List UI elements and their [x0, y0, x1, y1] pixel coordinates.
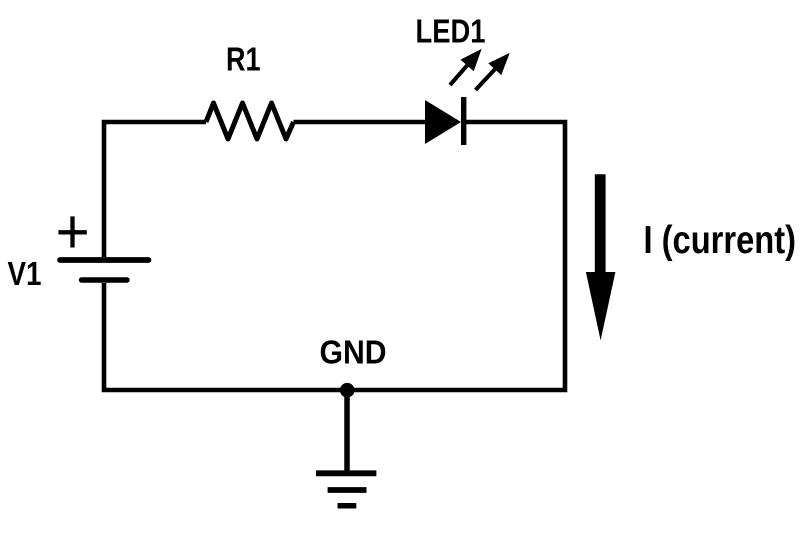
svg-text:V1: V1 [8, 256, 42, 293]
svg-text:GND: GND [320, 335, 387, 372]
svg-text:R1: R1 [226, 42, 261, 79]
svg-text:I (current): I (current) [644, 219, 797, 262]
svg-text:LED1: LED1 [416, 14, 486, 51]
